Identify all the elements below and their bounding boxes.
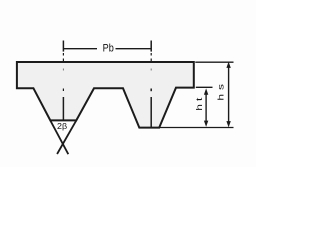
dimension arrow hs xyxy=(226,62,230,128)
svg-text:hs: hs xyxy=(217,80,226,101)
svg-text:Pb: Pb xyxy=(103,43,114,55)
extension line top (hs) xyxy=(195,61,233,63)
tooth 1 centerline xyxy=(62,41,64,120)
svg-text:2β: 2β xyxy=(57,121,67,131)
extension line tooth tip xyxy=(160,127,234,129)
extension line land (ht) xyxy=(196,86,213,88)
dimension arrow ht xyxy=(204,88,208,127)
svg-text:ht: ht xyxy=(195,95,204,111)
tooth 1 flank construction line left xyxy=(50,120,68,154)
tooth 1 flank construction line right xyxy=(57,120,76,154)
belt body profile xyxy=(17,62,194,128)
tooth 2 centerline xyxy=(150,41,152,128)
dimension line Pb xyxy=(63,48,151,50)
